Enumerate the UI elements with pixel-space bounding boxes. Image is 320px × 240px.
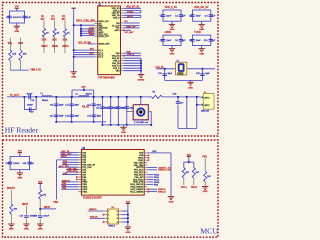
svg-text:AVDD: AVDD [165,31,172,34]
svg-text:1.71-6.8MT coil: 1.71-6.8MT coil [134,122,148,124]
svg-text:68pF: 68pF [59,116,64,118]
svg-text:VBB 3.3V: VBB 3.3V [30,68,41,71]
svg-text:5: 5 [117,211,118,213]
svg-text:VDD_RF_5V: VDD_RF_5V [194,6,209,9]
svg-text:68pF: 68pF [74,105,79,107]
svg-text:18pF: 18pF [168,73,173,75]
svg-text:68pF: 68pF [59,105,64,107]
svg-text:GND: GND [199,53,204,55]
svg-text:1: 1 [108,211,109,213]
svg-text:4K7: 4K7 [51,19,56,21]
svg-text:GND: GND [188,87,193,89]
svg-text:GND: GND [170,53,175,55]
svg-text:10K: 10K [23,54,27,56]
svg-text:VCC: VCC [14,6,19,8]
svg-text:GND: GND [169,201,174,203]
svg-text:4K7: 4K7 [40,19,45,21]
svg-text:PA11_USBDM: PA11_USBDM [130,190,143,193]
svg-text:68pF: 68pF [97,116,102,118]
svg-text:DATA_COM_LINK: DATA_COM_LINK [76,19,95,22]
svg-text:TVDD: TVDD [127,11,133,13]
svg-text:GND: GND [24,229,29,231]
svg-text:VDD_RF_5V: VDD_RF_5V [126,7,140,9]
svg-text:5: 5 [117,218,118,220]
svg-text:5: 5 [117,215,118,217]
svg-text:GND: GND [125,232,130,234]
svg-text:RX_IN: RX_IN [82,107,89,109]
svg-text:4K7: 4K7 [61,19,66,21]
svg-text:DATA_OUT: DATA_OUT [99,35,110,38]
svg-text:USART1_RX: USART1_RX [158,169,171,172]
svg-text:1uF: 1uF [30,163,34,165]
svg-text:MOSI: MOSI [52,46,58,48]
svg-text:100nF: 100nF [43,215,49,217]
svg-text:1: 1 [108,215,109,217]
svg-text:SWDIO: SWDIO [89,209,97,211]
svg-text:GND: GND [121,132,126,134]
svg-text:RST: RST [89,53,94,55]
svg-text:SWCLK: SWCLK [158,192,166,194]
svg-text:GND: GND [71,77,76,79]
svg-text:10nF: 10nF [196,40,202,42]
svg-text:LED_GLOW: LED_GLOW [78,42,92,44]
svg-text:1uF: 1uF [211,16,215,18]
svg-text:TRF7960RHBR: TRF7960RHBR [98,77,115,80]
svg-text:PB9: PB9 [54,202,59,204]
svg-text:GND: GND [203,191,208,193]
svg-text:TVDD: TVDD [194,31,201,34]
svg-text:10K: 10K [14,209,18,211]
svg-text:NSS: NSS [89,34,94,36]
svg-text:SWD-4: SWD-4 [108,226,116,228]
svg-text:0.1uF: 0.1uF [25,17,31,19]
svg-text:VSS: VSS [116,71,121,73]
svg-text:SCK: SCK [63,40,68,42]
svg-text:18pF: 18pF [205,73,210,75]
svg-text:SMA-KE: SMA-KE [201,109,210,112]
svg-text:10nF: 10nF [166,40,172,42]
svg-text:VMID_RF: VMID_RF [126,26,136,28]
svg-text:USB_DP: USB_DP [67,171,76,173]
svg-text:NC_ANT: NC_ANT [125,31,134,34]
svg-text:12MHz: 12MHz [177,74,183,76]
svg-text:VDD_5_5V: VDD_5_5V [165,6,178,9]
svg-text:GND: GND [38,229,43,231]
svg-text:BOOT0: BOOT0 [7,188,16,190]
svg-text:560nH: 560nH [42,100,49,102]
svg-text:DGND: DGND [138,79,145,81]
svg-text:SCL1: SCL1 [181,187,187,189]
svg-text:100pF: 100pF [27,94,34,96]
svg-text:NRST: NRST [44,207,51,209]
svg-text:MOSI: MOSI [63,46,69,48]
svg-text:10K: 10K [42,195,46,197]
svg-text:10K: 10K [12,54,16,56]
svg-text:MCU: MCU [200,227,218,236]
svg-text:1: 1 [108,218,109,220]
svg-text:10nF: 10nF [166,16,172,18]
svg-text:1uF: 1uF [211,40,215,42]
svg-text:BAND_GAP: BAND_GAP [99,43,111,46]
svg-text:ANT1: ANT1 [204,96,210,99]
svg-text:MOSI: MOSI [42,46,48,48]
svg-text:VIN: VIN [116,23,120,25]
svg-text:5: 5 [117,222,118,224]
svg-text:SWCLK: SWCLK [90,216,98,218]
svg-text:HF Reader: HF Reader [5,126,39,135]
svg-text:ANT2: ANT2 [204,104,210,107]
svg-text:330nH: 330nH [86,94,93,96]
svg-text:PB2: PB2 [203,157,208,159]
svg-text:1: 1 [108,222,109,224]
svg-text:ANT2: ANT2 [114,29,120,32]
svg-text:GND: GND [14,31,19,33]
svg-text:GND: GND [9,229,14,231]
svg-text:AVDD: AVDD [127,15,133,18]
svg-text:RX: RX [125,21,129,23]
svg-text:SDA1: SDA1 [191,186,198,189]
svg-text:STM32F103C8T6: STM32F103C8T6 [83,197,103,200]
svg-text:SCK: SCK [52,40,57,42]
svg-text:68pF: 68pF [74,116,79,118]
svg-text:VSS_A: VSS_A [127,53,135,56]
svg-text:NRST: NRST [61,156,68,158]
svg-text:GND: GND [17,178,22,180]
svg-text:10nF: 10nF [196,16,202,18]
svg-text:1uF: 1uF [182,40,186,42]
svg-text:1uF: 1uF [182,16,186,18]
svg-text:ANT: ANT [81,85,86,88]
svg-text:VDD_X: VDD_X [113,17,120,19]
svg-text:IRQ: IRQ [90,49,94,51]
svg-text:NRST: NRST [22,204,29,206]
svg-text:100pF: 100pF [27,105,34,107]
svg-text:100nF: 100nF [13,163,20,165]
svg-text:SCK: SCK [42,40,47,42]
